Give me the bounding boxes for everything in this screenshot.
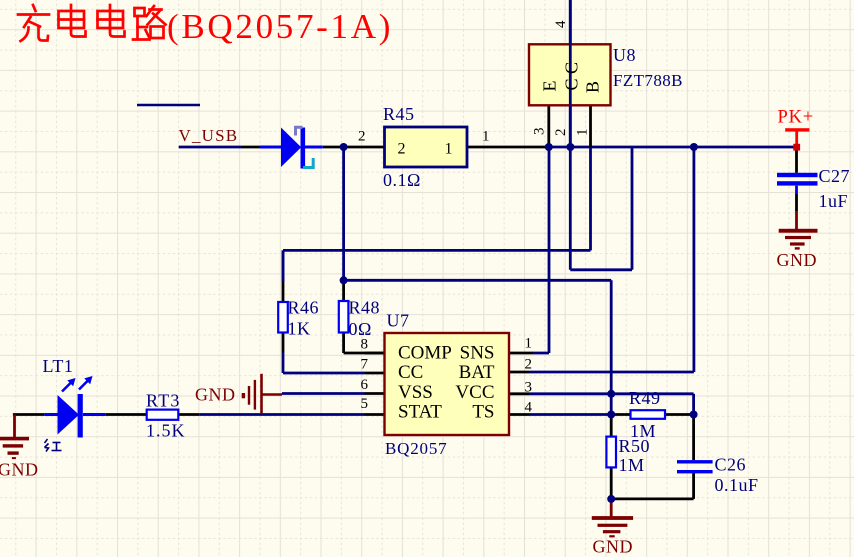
- svg-text:6: 6: [361, 377, 369, 393]
- wire R46 bottom to CC row: [283, 353, 365, 374]
- U7 pin 8 stub: [365, 352, 385, 355]
- svg-text:2: 2: [358, 129, 366, 145]
- junction U8 collector: [566, 143, 574, 151]
- op-amp U7 body BQ2057: [385, 333, 510, 435]
- resistor R49 body: [631, 410, 666, 419]
- wire C26 bottom to GND row: [692, 473, 695, 499]
- hanzi 电 (1st): [59, 5, 86, 37]
- wire BAT rail riser: [693, 147, 696, 372]
- svg-text:VCC: VCC: [455, 382, 494, 403]
- svg-text:SNS: SNS: [460, 343, 495, 364]
- junction node A (diode-R45): [340, 143, 348, 151]
- wire R48 bottom to COMP pin: [344, 333, 385, 354]
- transistor U8 body: [529, 44, 611, 105]
- svg-text:GND: GND: [777, 250, 818, 270]
- ground GND under C27: [779, 211, 818, 250]
- junction U8 emitter: [545, 143, 553, 151]
- wire U8 base down: [589, 147, 592, 250]
- wire BAT row: [529, 371, 694, 374]
- title text 充电电路(BQ2057-1A): [18, 5, 166, 41]
- resistor R48 body: [339, 280, 349, 332]
- junction VCC row: [607, 390, 615, 398]
- wire diode cathode to R45 pin2 (through node A): [323, 146, 385, 149]
- wire RT3 to STAT pin: [200, 413, 365, 416]
- svg-text:5: 5: [361, 396, 369, 412]
- wire R50 top pin: [610, 415, 613, 437]
- wire R50 bottom pin: [610, 467, 613, 499]
- wire TS row: [529, 413, 611, 416]
- svg-text:C27: C27: [819, 166, 851, 186]
- U7 pin 1 stub: [509, 352, 533, 355]
- wire V_USB stub: [179, 146, 241, 149]
- svg-text:GND: GND: [0, 460, 39, 480]
- wire VCC row: [529, 392, 694, 395]
- U7 pin 3 stub: [509, 392, 529, 395]
- junction bottom GND row: [607, 495, 615, 503]
- wire R45 pin1 to right: [467, 146, 546, 149]
- wire collector loop right riser: [631, 147, 634, 270]
- svg-text:LT1: LT1: [43, 356, 74, 376]
- svg-text:1: 1: [445, 141, 453, 158]
- hanzi 路: [133, 6, 166, 40]
- resistor R46 body: [278, 250, 288, 352]
- svg-text:B: B: [583, 81, 603, 93]
- LED LT1: [44, 376, 105, 438]
- capacitor C27: [777, 173, 818, 186]
- wire U8 pin4 over body: [569, 0, 572, 147]
- svg-text:PK+: PK+: [778, 108, 814, 128]
- junction TS row left: [607, 411, 615, 419]
- U7 pin 5 stub: [365, 413, 385, 416]
- svg-text:0.1Ω: 0.1Ω: [383, 170, 421, 190]
- power port PK+: [785, 128, 809, 150]
- svg-text:U7: U7: [387, 311, 410, 331]
- svg-text:GND: GND: [195, 385, 236, 405]
- svg-text:V_USB: V_USB: [179, 126, 239, 145]
- svg-text:1M: 1M: [619, 455, 645, 475]
- svg-text:1: 1: [482, 129, 490, 145]
- resistor R50 body: [606, 437, 616, 468]
- wire LED to RT3: [105, 413, 146, 416]
- svg-text:CC: CC: [398, 362, 423, 383]
- free line segment top-left: [137, 104, 200, 107]
- resistor R45 body: [385, 127, 468, 167]
- svg-text:VSS: VSS: [398, 382, 433, 403]
- svg-text:1uF: 1uF: [819, 191, 849, 211]
- svg-text:BAT: BAT: [459, 362, 495, 383]
- diode D1 schottky: [260, 127, 323, 168]
- svg-text:R49: R49: [629, 388, 661, 408]
- svg-text:1.5K: 1.5K: [146, 421, 186, 441]
- svg-text:R45: R45: [383, 104, 415, 124]
- svg-text:FZT788B: FZT788B: [613, 71, 683, 90]
- svg-text:BQ2057: BQ2057: [385, 439, 447, 458]
- junction TS row right: [690, 411, 698, 419]
- wire C27 bottom pin blue: [795, 186, 798, 194]
- U8 pin 3 E stub: [547, 105, 550, 147]
- hanzi 电 (2nd): [98, 5, 125, 37]
- capacitor C26: [677, 460, 713, 473]
- svg-text:COMP: COMP: [398, 343, 452, 364]
- svg-text:7: 7: [361, 357, 369, 373]
- wire VCC corner down to TS node: [692, 394, 695, 415]
- svg-text:4: 4: [553, 20, 569, 28]
- svg-text:1: 1: [525, 336, 533, 352]
- U7 pin 6 stub: [365, 392, 385, 395]
- svg-text:GND: GND: [593, 537, 634, 557]
- svg-text:0.1uF: 0.1uF: [715, 475, 759, 495]
- U7 pin 4 stub: [509, 413, 529, 416]
- wire bottom row C26 to R50: [611, 497, 693, 500]
- svg-text:C C: C C: [562, 62, 582, 91]
- wire VSS row: [282, 392, 365, 395]
- wire RT3 right black: [178, 413, 199, 416]
- ground GND under R50: [592, 499, 633, 538]
- U8 pin 1 B stub: [589, 105, 592, 147]
- svg-text:4: 4: [525, 400, 533, 416]
- wire STAT row from GND to LED: [13, 413, 44, 416]
- wire main rail to PK+: [546, 146, 797, 149]
- power ground bar GND at U7 VSS: [242, 374, 282, 414]
- svg-text:RT3: RT3: [146, 391, 181, 411]
- svg-text:8: 8: [361, 337, 369, 353]
- resistor RT3 body: [147, 410, 179, 420]
- junction node B (R48 top): [340, 276, 348, 284]
- wire C27 to GND: [795, 194, 798, 211]
- svg-text:U8: U8: [613, 45, 636, 65]
- wire collector loop bottom: [570, 268, 632, 271]
- wire U8 collector pin4 vertical: [569, 0, 572, 270]
- U7 pin 2 stub: [509, 371, 529, 374]
- svg-text:3: 3: [525, 380, 533, 396]
- wire node B to VCC riser: [344, 279, 612, 282]
- wire base row to R46: [283, 249, 591, 252]
- svg-text:STAT: STAT: [398, 402, 442, 423]
- wire R49 left pin: [611, 413, 630, 416]
- wire R49 right pin: [665, 413, 694, 416]
- junction BAT rail: [690, 143, 698, 151]
- svg-text:E: E: [540, 81, 560, 92]
- wire U8 emitter down to U7 SNS: [533, 147, 549, 353]
- wire V_USB to diode D anode: [241, 146, 260, 149]
- wire riser x611 down to TS row: [610, 280, 613, 414]
- svg-text:R50: R50: [619, 436, 651, 456]
- wire C26 top: [692, 415, 695, 461]
- svg-text:1: 1: [575, 129, 591, 137]
- svg-text:C26: C26: [715, 455, 747, 475]
- wire C27 top pin: [795, 149, 798, 173]
- svg-text:3: 3: [532, 128, 548, 136]
- svg-text:2: 2: [553, 129, 569, 137]
- value hanzi red(hong): [45, 439, 62, 452]
- svg-text:2: 2: [525, 357, 533, 373]
- svg-text:R46: R46: [288, 298, 320, 318]
- hanzi 充: [18, 5, 49, 41]
- wire node A down to R48: [342, 147, 345, 280]
- ground GND under LT1: [0, 415, 29, 460]
- wire down to R46 top: [282, 250, 285, 281]
- svg-text:TS: TS: [472, 402, 494, 423]
- U7 pin 7 stub: [365, 372, 385, 375]
- svg-text:R48: R48: [349, 298, 381, 318]
- svg-text:1K: 1K: [288, 319, 311, 339]
- svg-text:(BQ2057-1A): (BQ2057-1A): [167, 7, 393, 46]
- svg-text:2: 2: [398, 141, 406, 158]
